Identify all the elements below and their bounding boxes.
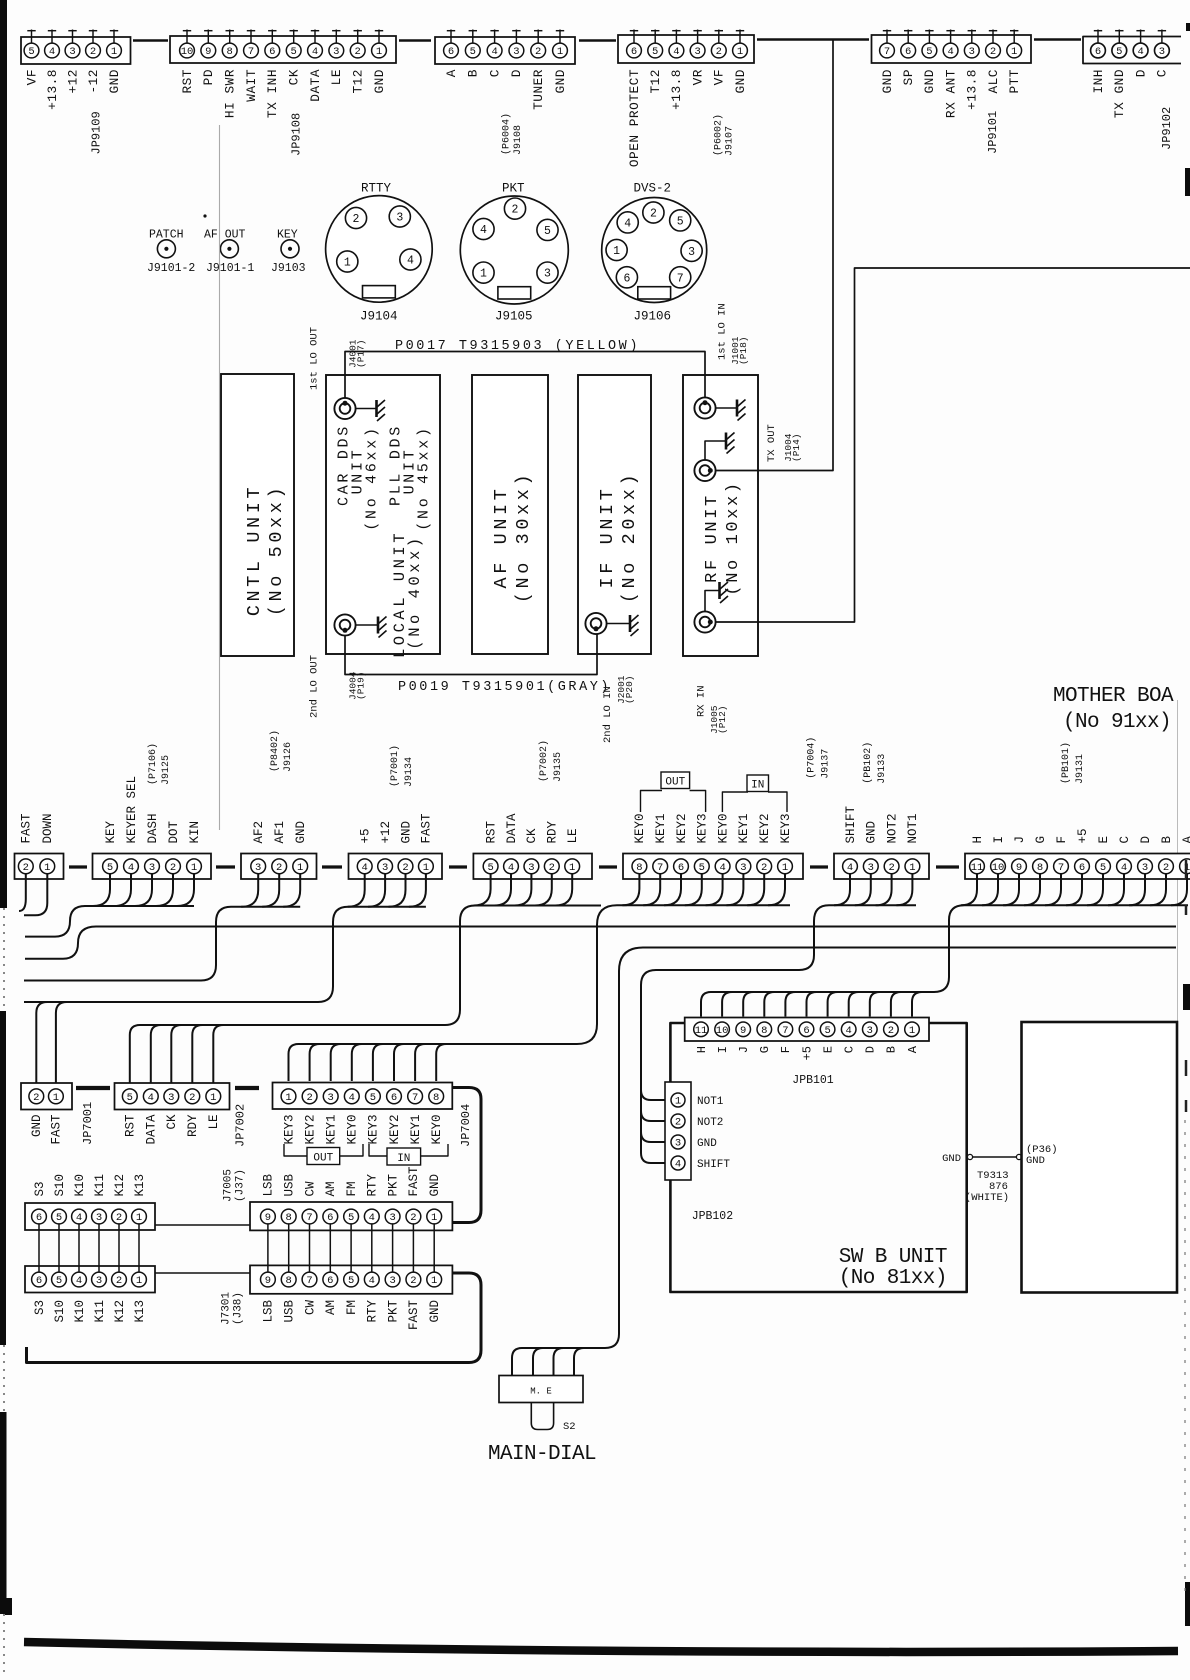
top bus wire segment 2 [399,39,431,41]
svg-text:3: 3 [96,1212,102,1224]
svg-text:C: C [1155,69,1170,77]
svg-text:(P19): (P19) [356,671,367,700]
svg-text:4: 4 [719,862,725,874]
svg-text:JPB102: JPB102 [692,1210,734,1223]
svg-text:(P7001): (P7001) [389,745,401,787]
wire cable J9135/JP7002 [474,873,491,906]
svg-text:7: 7 [248,46,254,58]
svg-text:4: 4 [349,1092,355,1104]
svg-text:GND: GND [922,69,937,94]
svg-text:E: E [1097,836,1111,844]
connector J9108 [435,37,575,64]
svg-text:1: 1 [344,257,351,270]
svg-text:1: 1 [1011,46,1017,58]
svg-text:DOWN: DOWN [41,813,55,843]
unit box RF UNIT [683,375,758,656]
svg-text:TX INH: TX INH [265,69,280,118]
scan edge left bar 1 [0,0,7,908]
svg-text:(PB102): (PB102) [862,742,874,784]
connector JP7001 [21,1083,72,1110]
svg-text:CK: CK [165,1114,179,1130]
svg-text:FM: FM [345,1181,359,1196]
connector JP9109 [21,37,131,64]
svg-text:KEY3: KEY3 [779,813,793,843]
svg-text:S3: S3 [33,1181,47,1196]
svg-text:J9131: J9131 [1075,754,1086,784]
svg-text:2: 2 [353,213,360,226]
svg-text:PATCH: PATCH [149,229,184,242]
svg-text:KEY3: KEY3 [282,1115,296,1145]
svg-text:3: 3 [96,1275,102,1287]
right unit box [1022,1022,1178,1293]
svg-text:6: 6 [1079,862,1085,874]
svg-text:JP9101: JP9101 [986,111,1000,154]
svg-text:5: 5 [28,46,34,58]
svg-text:A: A [444,69,459,77]
svg-text:(P6002): (P6002) [713,114,725,156]
svg-text:8: 8 [761,1025,767,1037]
mid bus dash 5 [599,865,617,868]
svg-text:RDY: RDY [186,1114,200,1137]
svg-text:SHIFT: SHIFT [844,805,858,843]
svg-text:11: 11 [695,1025,708,1037]
svg-text:4: 4 [675,1159,681,1171]
connector J9125 [93,854,212,880]
svg-text:K13: K13 [133,1174,147,1197]
wire cable J9134/JP7001 [348,873,365,907]
svg-text:HI SWR: HI SWR [223,69,238,118]
connector J9134 [349,854,443,880]
top bus wire segment 1 [133,39,168,41]
svg-text:3: 3 [868,862,874,874]
svg-text:SW B UNIT: SW B UNIT [839,1246,947,1269]
connector J9131 [965,854,1190,880]
svg-text:J9101-1: J9101-1 [206,262,254,275]
svg-text:9: 9 [205,46,211,58]
scan edge left bar 2 [0,1011,6,1345]
svg-text:10: 10 [992,862,1005,874]
svg-text:KEY2: KEY2 [303,1115,317,1145]
svg-text:4: 4 [312,46,318,58]
row3 to J7005 link [155,1224,250,1226]
DIN connector J9104 RTTY [326,196,433,303]
svg-text:8: 8 [227,46,233,58]
svg-text:DASH: DASH [146,813,160,843]
svg-text:+13.8: +13.8 [669,69,684,110]
wire bus L1 [25,927,1176,959]
svg-text:5: 5 [677,215,684,228]
svg-text:5: 5 [1116,46,1122,58]
svg-text:H: H [971,836,985,844]
PATCH jack J9101-2 [157,240,175,258]
stray dot [203,214,206,217]
svg-text:8: 8 [1037,862,1043,874]
svg-text:P0019 T9315901(GRAY): P0019 T9315901(GRAY) [398,680,611,695]
svg-text:5: 5 [652,46,658,58]
svg-text:LE: LE [566,828,580,843]
svg-text:(No 45xx): (No 45xx) [416,425,433,530]
svg-text:7: 7 [677,272,684,285]
svg-text:2: 2 [888,862,894,874]
connector JP9102 [1083,37,1181,64]
mid bus dash 3 [322,865,342,868]
svg-text:7: 7 [782,1025,788,1037]
svg-text:2: 2 [650,208,657,221]
svg-text:(P20): (P20) [624,675,635,704]
svg-text:RF UNIT: RF UNIT [703,493,722,583]
svg-text:S10: S10 [53,1300,67,1323]
svg-text:MOTHER BOA: MOTHER BOA [1053,685,1174,708]
svg-text:2: 2 [116,1212,122,1224]
wire P0017 1st LO [345,352,705,399]
svg-text:GND: GND [942,1153,961,1165]
svg-text:AF UNIT: AF UNIT [491,486,512,589]
svg-text:2: 2 [512,204,519,217]
svg-text:M. E: M. E [530,1387,552,1397]
svg-text:4: 4 [491,46,497,58]
svg-text:5: 5 [370,1092,376,1104]
svg-text:(P7106): (P7106) [147,743,159,785]
svg-text:3: 3 [389,1275,395,1287]
connector J-row4-6pin [25,1266,155,1293]
svg-text:TUNER: TUNER [531,69,546,110]
svg-text:(P6004): (P6004) [501,113,513,155]
unit box CNTL UNIT [221,374,294,656]
svg-text:D: D [1133,69,1148,77]
svg-text:3: 3 [333,46,339,58]
svg-text:(PB101): (PB101) [1060,742,1072,784]
connector JP7004 [273,1083,453,1110]
svg-text:G: G [758,1046,772,1053]
svg-text:J9108: J9108 [513,125,524,155]
svg-text:JP7004: JP7004 [459,1104,473,1147]
svg-text:4: 4 [148,1092,154,1104]
svg-text:OPEN PROTECT: OPEN PROTECT [627,69,642,167]
svg-text:K12: K12 [113,1174,127,1197]
wire cable J9137/JP7004 [622,873,639,905]
svg-text:J: J [737,1046,751,1053]
ground at J1005 [705,591,720,612]
svg-text:KEY2: KEY2 [675,813,689,843]
svg-text:NOT1: NOT1 [906,813,920,843]
svg-text:(J38): (J38) [233,1292,245,1325]
scan edge left small mark [5,1598,12,1615]
unit box DDS/LOCAL UNIT [326,375,440,654]
svg-text:GND: GND [399,821,413,844]
svg-text:3: 3 [382,862,388,874]
JP7004 IN bracket [369,1144,388,1156]
svg-text:1: 1 [431,1212,437,1224]
svg-text:GND: GND [428,1174,442,1197]
svg-text:CW: CW [303,1300,317,1316]
svg-text:AF2: AF2 [252,821,266,844]
svg-text:1: 1 [782,862,788,874]
fold line left [219,125,221,830]
connector J9107 [618,35,754,63]
svg-text:T12: T12 [648,69,663,94]
svg-text:+13.8: +13.8 [45,69,60,110]
wire cable J9133/JP8102 [834,873,850,905]
svg-text:4: 4 [128,862,134,874]
svg-text:3: 3 [255,862,261,874]
svg-text:KEY0: KEY0 [633,813,647,843]
svg-text:9: 9 [740,1025,746,1037]
connector JP8101 [685,1018,929,1042]
svg-text:LSB: LSB [262,1300,276,1323]
svg-text:+12: +12 [379,821,393,844]
svg-text:KEY0: KEY0 [716,813,730,843]
svg-text:VF: VF [712,69,727,85]
thick dash JP7002-JP7004 [235,1086,259,1090]
svg-text:2: 2 [90,46,96,58]
svg-text:T12: T12 [351,69,366,94]
svg-text:GND: GND [107,69,122,94]
coax connector J4001 1st LO OUT [334,398,355,419]
svg-text:2: 2 [410,1212,416,1224]
svg-text:(P7004): (P7004) [805,737,817,779]
svg-text:1: 1 [909,862,915,874]
ground at J1004 [705,441,726,460]
svg-text:USB: USB [283,1300,297,1323]
svg-text:DVS-2: DVS-2 [634,182,672,196]
J9137 OUT bracket [641,791,663,813]
svg-text:F: F [779,1046,793,1053]
ground at J4001 [356,408,377,410]
svg-text:9: 9 [265,1212,271,1224]
svg-text:KEY1: KEY1 [737,813,751,843]
svg-text:5: 5 [470,46,476,58]
svg-text:TX GND: TX GND [1112,69,1127,118]
svg-text:IN: IN [397,1153,410,1165]
svg-text:K11: K11 [93,1174,107,1197]
svg-text:RTY: RTY [366,1300,380,1323]
svg-text:K11: K11 [93,1300,107,1323]
svg-text:7: 7 [657,862,663,874]
wire TX OUT to top [715,40,833,471]
svg-text:CNTL UNIT: CNTL UNIT [244,484,265,616]
svg-text:E: E [821,1046,835,1053]
svg-text:J7005: J7005 [223,1169,235,1202]
svg-text:5: 5 [291,46,297,58]
svg-text:5: 5 [127,1092,133,1104]
svg-text:5: 5 [824,1025,830,1037]
svg-text:J9101-2: J9101-2 [147,262,195,275]
svg-text:D: D [1139,836,1153,844]
svg-text:(No 46xx): (No 46xx) [364,425,381,530]
svg-text:2: 2 [990,46,996,58]
svg-text:DATA: DATA [308,69,323,102]
svg-text:J9103: J9103 [271,262,306,275]
svg-text:3: 3 [1159,46,1165,58]
wire P0019 2nd LO [345,634,597,675]
svg-text:JP7001: JP7001 [81,1102,95,1145]
svg-text:B: B [466,69,481,77]
svg-text:DATA: DATA [505,813,519,844]
svg-text:4: 4 [1137,46,1143,58]
svg-text:KEY1: KEY1 [654,813,668,843]
svg-text:2: 2 [116,1275,122,1287]
svg-text:4: 4 [407,255,414,268]
svg-text:(P8402): (P8402) [269,730,281,772]
svg-text:2: 2 [716,46,722,58]
svg-text:8: 8 [286,1212,292,1224]
svg-text:FAST: FAST [407,1166,421,1197]
svg-text:2: 2 [535,46,541,58]
svg-text:3: 3 [688,246,695,259]
svg-text:PTT: PTT [1007,69,1022,94]
connector J7301 [250,1265,452,1293]
svg-text:J9125: J9125 [161,755,172,785]
svg-text:I: I [992,836,1006,844]
svg-text:USB: USB [283,1173,297,1196]
svg-text:GND: GND [553,69,568,94]
J9137 IN bracket [722,792,748,812]
svg-text:J9105: J9105 [495,310,533,324]
svg-text:7: 7 [306,1275,312,1287]
svg-text:K13: K13 [133,1300,147,1323]
svg-text:VR: VR [690,69,705,85]
svg-text:J9126: J9126 [283,742,294,772]
svg-text:3: 3 [675,1138,681,1150]
svg-text:2nd LO OUT: 2nd LO OUT [309,655,321,718]
svg-text:G: G [1034,836,1048,844]
svg-text:2: 2 [306,1092,312,1104]
svg-text:J9104: J9104 [360,310,398,324]
svg-text:J9137: J9137 [820,749,831,779]
svg-text:D: D [509,69,524,77]
svg-text:3: 3 [969,46,975,58]
svg-text:OUT: OUT [313,1153,333,1165]
svg-text:5: 5 [487,862,493,874]
svg-text:7: 7 [412,1092,418,1104]
svg-text:+12: +12 [65,69,80,94]
svg-text:S2: S2 [563,1421,576,1433]
svg-text:GND: GND [294,821,308,844]
svg-text:2: 2 [23,862,29,874]
svg-text:1: 1 [737,46,743,58]
svg-text:PKT: PKT [386,1300,400,1323]
svg-text:+5: +5 [800,1046,814,1060]
svg-text:GND: GND [865,821,879,844]
mid bus dash 2 [216,865,235,868]
svg-text:2: 2 [33,1092,39,1104]
svg-text:2: 2 [761,862,767,874]
svg-text:NOT2: NOT2 [885,813,899,843]
svg-text:6: 6 [391,1092,397,1104]
svg-text:1st LO IN: 1st LO IN [717,303,729,360]
svg-text:KEY1: KEY1 [409,1115,423,1145]
svg-text:B: B [1160,836,1174,844]
svg-text:1: 1 [297,862,303,874]
svg-text:1: 1 [423,862,429,874]
svg-text:(No 10xx): (No 10xx) [724,480,743,595]
svg-text:2: 2 [549,862,555,874]
wire cable FAST/DOWN [19,873,26,911]
ground at J2001 [607,623,630,625]
svg-text:(P12): (P12) [717,705,728,734]
svg-text:LE: LE [329,69,344,85]
wire cable J9126 [241,873,258,907]
svg-text:FAST: FAST [20,813,34,844]
svg-text:KEYER SEL: KEYER SEL [125,776,139,844]
svg-text:KEY2: KEY2 [758,813,772,843]
svg-text:11: 11 [971,862,984,874]
svg-text:5: 5 [544,225,551,238]
svg-text:RTTY: RTTY [361,182,392,196]
AF OUT jack J9101-1 [220,240,238,258]
svg-text:A: A [906,1045,920,1053]
svg-text:GND: GND [372,69,387,94]
SW B UNIT box [670,1023,966,1292]
svg-text:KEY0: KEY0 [346,1115,360,1145]
svg-text:JP7002: JP7002 [234,1104,248,1147]
svg-text:RDY: RDY [546,820,560,843]
svg-text:J9133: J9133 [877,754,888,784]
svg-text:7: 7 [306,1212,312,1224]
svg-text:RX IN: RX IN [696,685,708,717]
svg-text:2: 2 [1163,862,1169,874]
svg-text:6: 6 [269,46,275,58]
svg-text:+13.8: +13.8 [965,69,980,110]
svg-text:3: 3 [867,1025,873,1037]
unit box IF UNIT [578,375,651,654]
coax connector J1004 TX OUT [694,460,715,481]
top bus wire segment 5 [1034,38,1081,40]
svg-text:RST: RST [484,820,498,843]
svg-text:10: 10 [716,1025,729,1037]
svg-text:S3: S3 [33,1300,47,1315]
svg-text:4: 4 [624,217,631,230]
svg-text:(No 30xx): (No 30xx) [513,471,534,603]
svg-text:K12: K12 [113,1300,127,1323]
svg-text:KEY0: KEY0 [430,1115,444,1145]
svg-text:J9106: J9106 [634,310,672,324]
svg-text:2: 2 [355,46,361,58]
scan edge right marks [1186,23,1190,31]
unit box AF UNIT [472,375,548,654]
svg-text:4: 4 [76,1275,82,1287]
svg-text:1st LO OUT: 1st LO OUT [309,327,321,390]
svg-text:5: 5 [699,862,705,874]
svg-text:VF: VF [24,69,39,85]
svg-text:6: 6 [36,1275,42,1287]
mid bus dash 1 [69,865,87,868]
svg-text:KEY3: KEY3 [367,1115,381,1145]
svg-text:RST: RST [124,1114,138,1137]
svg-text:GND: GND [733,69,748,94]
svg-text:6: 6 [631,46,637,58]
scan edge left dots [3,908,5,1011]
svg-text:+5: +5 [1076,828,1090,843]
connector JP8102 [665,1082,691,1180]
svg-text:(P17): (P17) [356,339,367,368]
JP7004 OUT bracket [284,1144,308,1156]
svg-text:4: 4 [1121,862,1127,874]
mid bus dash 7 [936,865,959,868]
svg-text:6: 6 [905,46,911,58]
svg-text:CW: CW [303,1181,317,1197]
svg-text:8: 8 [286,1275,292,1287]
svg-text:JP9102: JP9102 [1160,107,1174,150]
svg-text:(No 50xx): (No 50xx) [266,484,287,616]
svg-text:(J37): (J37) [235,1169,247,1202]
svg-text:NOT2: NOT2 [697,1117,723,1129]
svg-text:1: 1 [431,1275,437,1287]
svg-text:FAST: FAST [407,1300,421,1331]
svg-text:6: 6 [327,1275,333,1287]
svg-text:1: 1 [557,46,563,58]
scan edge left bar 3 [0,1412,7,1614]
